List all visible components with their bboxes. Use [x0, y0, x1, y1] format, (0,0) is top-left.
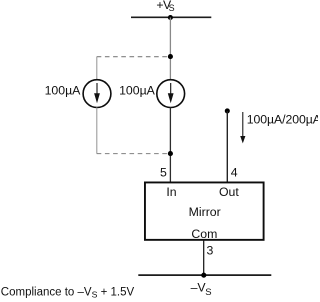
node A junction dot: [168, 54, 173, 59]
wire rail to node A: [169, 18, 171, 81]
svg-text:Out: Out: [219, 185, 239, 199]
svg-text:Mirror: Mirror: [189, 205, 221, 219]
svg-text:100µA: 100µA: [45, 84, 82, 98]
junction dot on +Vs rail: [168, 15, 173, 20]
wire I2 to In pin: [169, 107, 171, 182]
Out node dot: [225, 108, 230, 113]
svg-text:100µA/200µA: 100µA/200µA: [247, 113, 318, 127]
dashed wire bottom: [97, 153, 169, 155]
current source I1 circle: [83, 80, 111, 108]
svg-text:Com: Com: [191, 227, 217, 241]
svg-text:S: S: [205, 287, 211, 298]
svg-text:100µA: 100µA: [119, 84, 156, 98]
current source I2 circle: [157, 80, 185, 108]
wire Out pin: [226, 111, 228, 182]
svg-text:S: S: [169, 3, 175, 13]
svg-text:4: 4: [231, 166, 238, 180]
junction dot In wire / dashed wire: [168, 151, 173, 156]
svg-text:5: 5: [160, 166, 167, 180]
svg-text:3: 3: [207, 244, 214, 258]
dashed wire top: [97, 56, 169, 58]
current direction arrow: [242, 112, 244, 138]
+Vs power rail: [131, 16, 211, 18]
svg-text:Compliance to –VS + 1.5V: Compliance to –VS + 1.5V: [1, 286, 135, 299]
current source I1 arrow: [96, 83, 98, 95]
svg-text:In: In: [166, 185, 176, 199]
svg-text:–V: –V: [191, 281, 207, 295]
wire Com pin to -Vs rail: [203, 240, 205, 275]
mirror block U1: [145, 182, 264, 239]
current source I2 arrow: [170, 83, 172, 95]
left branch wire lower: [96, 107, 98, 153]
left branch wire upper: [96, 57, 98, 80]
junction dot on -Vs rail: [201, 273, 206, 278]
-Vs power rail: [138, 274, 271, 276]
